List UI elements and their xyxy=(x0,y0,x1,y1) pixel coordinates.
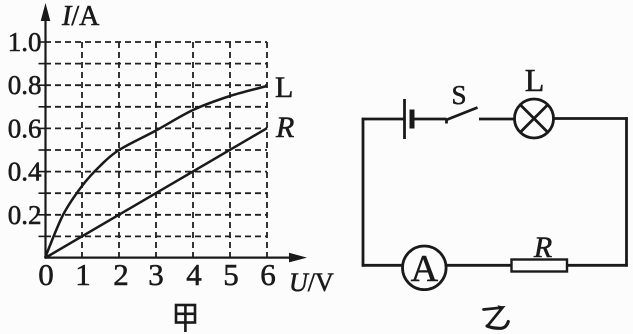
svg-text:R: R xyxy=(275,111,294,144)
svg-text:I/A: I/A xyxy=(61,1,100,32)
svg-text:4: 4 xyxy=(186,257,202,292)
svg-text:1: 1 xyxy=(75,257,91,292)
svg-text:L: L xyxy=(275,71,293,104)
svg-text:S: S xyxy=(451,80,466,110)
svg-text:L: L xyxy=(525,62,545,98)
svg-text:0.8: 0.8 xyxy=(8,70,42,100)
svg-text:0.2: 0.2 xyxy=(8,200,42,230)
svg-text:0: 0 xyxy=(38,257,54,292)
svg-text:R: R xyxy=(533,231,552,264)
svg-text:1.0: 1.0 xyxy=(8,27,42,57)
svg-text:2: 2 xyxy=(113,257,129,292)
svg-text:0.4: 0.4 xyxy=(8,157,42,187)
svg-text:A: A xyxy=(411,248,439,290)
svg-text:5: 5 xyxy=(223,257,239,292)
svg-text:U/V: U/V xyxy=(289,268,334,297)
svg-text:0.6: 0.6 xyxy=(8,113,42,143)
svg-text:3: 3 xyxy=(148,257,164,292)
svg-text:6: 6 xyxy=(260,257,276,292)
